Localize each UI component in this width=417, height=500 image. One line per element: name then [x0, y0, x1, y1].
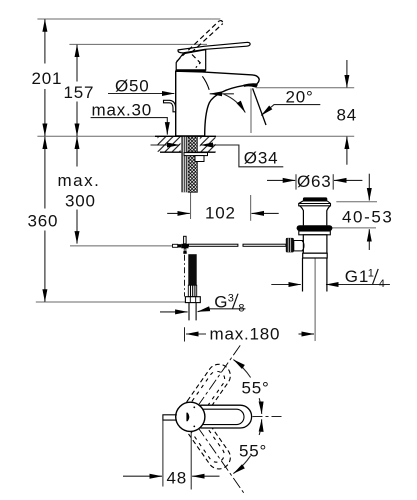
extension line pop-up rod level [70, 245, 172, 247]
faucet threaded shank (knurled) [188, 137, 197, 193]
water stream vertical reference [250, 88, 252, 133]
top view lower diagonal centerline [197, 426, 244, 493]
svg-text:G: G [214, 292, 228, 311]
waste flange [299, 201, 331, 206]
svg-text:4: 4 [379, 278, 385, 290]
svg-text:max.: max. [58, 171, 101, 190]
dimension 157 [76, 45, 78, 136]
svg-text:max.30: max.30 [92, 101, 153, 120]
svg-text:Ø63: Ø63 [297, 172, 332, 191]
horizontal pop-up rod to waste [189, 244, 286, 246]
label 20 degrees with leader [261, 105, 320, 116]
dimension max.300 [76, 137, 78, 244]
waste lip below seal [299, 231, 331, 235]
svg-text:360: 360 [28, 212, 59, 231]
svg-text:48: 48 [167, 469, 188, 488]
spout body crease [202, 76, 209, 90]
svg-text:max.180: max.180 [210, 325, 281, 344]
top view upper diagonal centerline [197, 345, 241, 407]
deck cross-section hatching right [200, 137, 216, 152]
label G 3/8 with leader [160, 309, 245, 312]
lever handle blade (solid position) [178, 42, 250, 53]
dimension 360 [44, 137, 46, 302]
rod lower stub and end cap [183, 248, 186, 254]
water stream at 20 degrees [253, 88, 266, 125]
top view lower dashed lever position [181, 410, 235, 473]
mounting washer [184, 153, 208, 156]
svg-text:G1: G1 [345, 267, 369, 286]
spout aerator [243, 83, 257, 87]
pop-up waste dome cap [303, 197, 327, 201]
svg-text:8: 8 [238, 303, 244, 315]
rod knob stem [294, 241, 304, 251]
top view solid lever [190, 405, 251, 428]
deck cross-section hatching left [158, 137, 181, 152]
dimension 84 [346, 60, 348, 165]
svg-text:Ø50: Ø50 [115, 77, 150, 96]
faucet body and spout [176, 71, 260, 136]
top view lever inner contour [197, 409, 245, 424]
dimension 102 (spout reach) [191, 192, 251, 221]
dimension 40-53 (clamping range) [331, 202, 377, 228]
top view upper dashed lever position [181, 360, 235, 423]
hose end fitting (ribbed) [188, 285, 196, 297]
lever handle raised (dashed) [177, 21, 223, 68]
stream swivel arc arrow [224, 94, 246, 113]
waste joint band [303, 253, 328, 258]
svg-text:40-53: 40-53 [342, 207, 393, 226]
waste centerline [314, 252, 316, 342]
dimension 201 [44, 19, 46, 136]
top view spout stub [163, 415, 177, 420]
upper 55 degree arc [233, 360, 261, 414]
waste upper body [300, 206, 331, 226]
label diameter 50 with leader [108, 93, 174, 95]
dimension max.180 [184, 327, 186, 341]
svg-text:55°: 55° [242, 379, 270, 398]
svg-text:157: 157 [64, 83, 95, 102]
waste tailpipe G1 1/4 [303, 258, 327, 292]
faucet centerline below (dash-dot) [184, 255, 186, 297]
svg-text:102: 102 [205, 203, 236, 222]
svg-text:3: 3 [228, 293, 234, 305]
cartridge cap bottom edge (thick) [176, 69, 206, 72]
label G1 1/4 with leader [271, 284, 390, 286]
dimension diameter 34 (deck hole) [151, 145, 284, 167]
dimension 48 [163, 420, 191, 489]
svg-text:84: 84 [337, 106, 358, 125]
top view lever socket mark [186, 406, 195, 427]
pop-up pull rod below deck [184, 236, 187, 244]
mounting nut [195, 156, 204, 162]
diameter 50 right arrow [210, 93, 234, 95]
pull rod knob hook at rear of body [164, 100, 176, 112]
G3/8 connection nut [185, 297, 200, 303]
deck cross-section outline [155, 136, 216, 152]
waste O-ring seal [297, 225, 333, 231]
top view horizontal centerline [253, 416, 285, 418]
rod T-junction block [173, 244, 189, 249]
svg-text:55°: 55° [239, 442, 267, 461]
svg-text:201: 201 [32, 69, 63, 88]
supply hose (dark) [188, 254, 196, 285]
supply pipe G3/8 [189, 303, 196, 321]
rod knob (knurled) on waste [286, 238, 294, 253]
svg-text:20°: 20° [286, 87, 314, 106]
svg-text:300: 300 [65, 192, 96, 211]
extension line spout outlet height [256, 87, 354, 89]
deck surface line [37, 135, 354, 137]
waste lower body [303, 235, 327, 253]
faucet shank pull rod (dark) [181, 137, 187, 193]
lower 55 degree arc [233, 419, 261, 473]
svg-text:Ø34: Ø34 [244, 149, 279, 168]
extension line supply connection level [36, 301, 186, 303]
dimension diameter 63 (waste flange) [296, 174, 333, 189]
extension line top (lever raised height) [37, 18, 220, 20]
label max.30 with leader [91, 118, 168, 135]
top view faucet body circle [176, 402, 205, 431]
extension line solid lever height [69, 43, 207, 45]
svg-text:1: 1 [368, 268, 374, 280]
cartridge cap (solid position) [176, 50, 206, 71]
